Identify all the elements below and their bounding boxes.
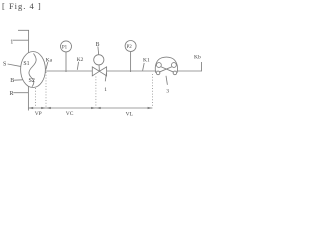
svg-text:K1: K1 <box>143 58 150 64</box>
svg-text:Kb: Kb <box>194 55 201 61</box>
arrow VL right <box>148 107 153 109</box>
pump cross line 2 <box>159 67 172 73</box>
arrow VL left <box>96 107 101 109</box>
membrane divider <box>29 54 36 87</box>
dashed vline VL end <box>151 74 153 108</box>
svg-text:S: S <box>3 62 6 68</box>
gauge P1 stem <box>65 52 67 72</box>
outlet pipe down <box>27 86 29 110</box>
svg-text:S2: S2 <box>29 78 35 84</box>
pump rotor left <box>157 63 162 68</box>
leader for S <box>8 64 21 66</box>
leader for valve label <box>97 47 100 55</box>
leader for label 1 <box>13 39 28 41</box>
svg-text:P2: P2 <box>127 45 133 50</box>
valve stem <box>98 65 100 71</box>
dashed vline below ellipse <box>35 88 37 108</box>
arrow VC right <box>91 107 96 109</box>
arrow VP right <box>41 107 46 109</box>
arrow left end <box>28 107 33 109</box>
svg-text:VL: VL <box>126 112 134 118</box>
gauge P2 stem <box>130 52 132 73</box>
pump housing omega <box>155 57 177 73</box>
pump cross line 1 <box>161 67 174 73</box>
pump foot right <box>173 71 177 75</box>
valve bowtie left <box>92 67 99 76</box>
svg-text:VC: VC <box>66 111 74 117</box>
svg-text:K2: K2 <box>77 57 84 63</box>
leader for K1 <box>143 63 145 71</box>
main pipe right segment <box>177 70 202 72</box>
exhaust up tick <box>201 62 203 71</box>
svg-text:[ Fig. 4 ]: [ Fig. 4 ] <box>2 1 42 11</box>
gauge P1 circle <box>61 41 72 52</box>
svg-text:B: B <box>10 78 14 84</box>
svg-text:S1: S1 <box>23 61 29 67</box>
svg-text:1: 1 <box>104 87 107 93</box>
svg-text:1: 1 <box>10 39 13 46</box>
leader for pipe label <box>105 73 106 82</box>
svg-text:P1: P1 <box>62 46 68 51</box>
pump rotor right <box>172 63 177 68</box>
svg-text:3: 3 <box>166 88 169 94</box>
svg-text:VP: VP <box>35 111 42 117</box>
gauge P2 circle <box>125 41 136 52</box>
leader for label 3 <box>166 76 167 85</box>
inlet pipe elbow <box>18 30 29 52</box>
leader for R <box>13 92 28 94</box>
dimension line <box>28 107 152 109</box>
pump foot left <box>156 71 160 75</box>
dashed vline VP/VC boundary <box>45 72 47 108</box>
valve actuator circle <box>94 55 104 65</box>
arrow VC left <box>46 107 51 109</box>
leader for B <box>14 79 22 81</box>
chamber S ellipse <box>21 52 46 88</box>
svg-text:R: R <box>10 91 14 97</box>
main pipe left segment <box>45 70 92 72</box>
dashed vline VC/VL boundary <box>95 77 97 108</box>
leader for Ka <box>46 62 48 70</box>
main pipe mid segment <box>107 70 157 72</box>
svg-text:Ka: Ka <box>46 57 53 63</box>
valve bowtie right <box>99 67 106 76</box>
leader for K2 <box>77 62 78 70</box>
